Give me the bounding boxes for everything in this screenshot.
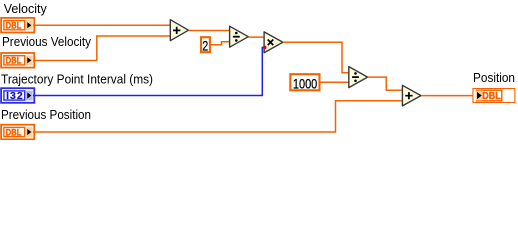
wire Divide1 output to Multiply top input (248, 36, 264, 38)
add node Add1 (170, 20, 188, 41)
control terminal Trajectory Point Interval (I32) (1, 88, 34, 103)
wire Trajectory Point Interval to Multiply bottom input (33, 47, 264, 95)
svg-text:DBL: DBL (6, 56, 22, 67)
wire Divide2 output to Add2 top input (368, 77, 403, 90)
wire constant 2 to Divide1 bottom input (211, 42, 230, 45)
svg-text:Previous Velocity: Previous Velocity (2, 34, 91, 49)
svg-text:I32: I32 (6, 90, 23, 102)
numeric constant 2 (201, 37, 210, 53)
svg-text:2: 2 (202, 38, 208, 54)
numeric constant 1000 (290, 74, 319, 91)
indicator terminal Position (DBL) (473, 89, 515, 103)
wire Previous Position to Add2 bottom input (33, 101, 402, 132)
svg-text:DBL: DBL (6, 127, 22, 138)
svg-text:DBL: DBL (482, 90, 501, 102)
wire Add1 output to Divide1 top input (189, 30, 230, 32)
wire Previous Velocity to Add1 bottom input (33, 36, 170, 61)
svg-text:1000: 1000 (293, 76, 318, 92)
svg-text:Velocity: Velocity (4, 1, 47, 16)
add node Add2 (402, 85, 421, 106)
wire Velocity to Add1 top input (33, 24, 170, 26)
control terminal Velocity (DBL) (1, 18, 34, 33)
divide node Divide2 (349, 67, 368, 88)
control terminal Previous Velocity (DBL) (1, 53, 34, 68)
multiply node Multiply (264, 32, 283, 53)
wire Add2 output to Position terminal (421, 95, 473, 97)
svg-text:Previous Position: Previous Position (1, 107, 91, 122)
svg-text:Trajectory Point Interval (ms): Trajectory Point Interval (ms) (1, 71, 153, 86)
wire Multiply output to Divide2 top input (283, 42, 349, 73)
coercion dot on Multiply bottom input (263, 46, 267, 50)
wire constant 1000 to Divide2 bottom input (321, 81, 349, 83)
svg-text:Position: Position (473, 70, 515, 85)
divide node Divide1 (230, 26, 249, 47)
control terminal Previous Position (DBL) (1, 125, 34, 140)
svg-text:DBL: DBL (6, 21, 22, 32)
